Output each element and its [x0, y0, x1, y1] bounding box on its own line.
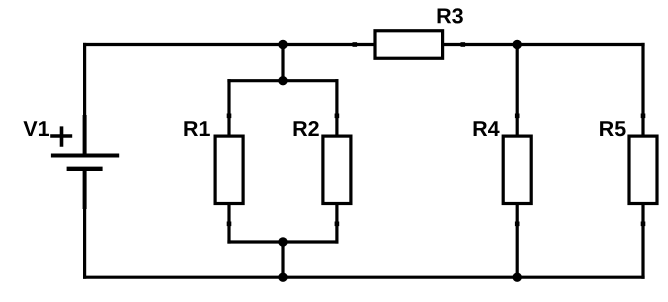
wire: [85, 276, 643, 279]
wire: [641, 224, 644, 277]
wire: [229, 240, 337, 243]
junction: [513, 273, 522, 282]
resistor R2: [294, 114, 351, 227]
wire: [281, 242, 284, 277]
wire: [641, 45, 644, 116]
junction: [513, 40, 522, 49]
wire: [227, 224, 230, 242]
wire: [83, 209, 86, 277]
wire: [516, 45, 519, 116]
junction: [278, 40, 287, 49]
junction: [278, 76, 287, 85]
wire: [85, 43, 355, 46]
wire: [335, 224, 338, 242]
wire: [463, 43, 643, 46]
wire: [281, 45, 284, 81]
wire: [83, 45, 86, 116]
wire: [229, 79, 337, 82]
wire: [516, 224, 519, 277]
wire: [227, 81, 230, 116]
wire: [335, 81, 338, 116]
resistor R5: [600, 114, 657, 227]
resistor R3: [353, 8, 466, 58]
junction: [278, 237, 287, 246]
resistor R4: [474, 114, 532, 227]
junction: [278, 273, 287, 282]
resistor R1: [184, 114, 243, 227]
voltage source V1: [23, 115, 119, 209]
